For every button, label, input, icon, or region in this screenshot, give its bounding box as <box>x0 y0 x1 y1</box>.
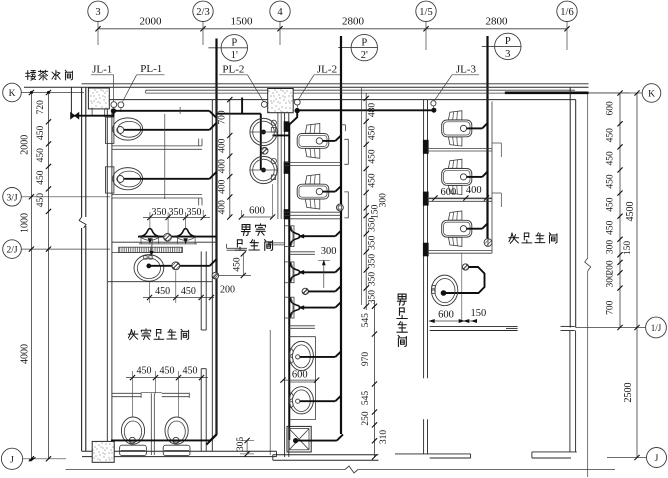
axis circle 3/J (left) <box>3 188 110 207</box>
dimension text 2800 (right) <box>486 15 509 27</box>
gate valve <box>71 113 79 119</box>
dimension text 545 (lower chain) <box>361 391 371 406</box>
washbasin 2 (men room) <box>289 387 313 414</box>
wall pilasters (men room west wall) <box>284 122 289 219</box>
section marker P/3 <box>482 33 521 60</box>
svg-text:450: 450 <box>155 286 170 297</box>
svg-text:2500: 2500 <box>623 383 634 403</box>
axis circle 2/J (left) <box>3 240 110 259</box>
room label men (vertical) <box>397 294 408 347</box>
svg-text:300: 300 <box>606 240 616 255</box>
toilet WC1 (women guest top) <box>106 117 143 143</box>
middle dimension chain lower <box>372 300 377 460</box>
urinal pair (women guest) <box>138 229 217 244</box>
wall urinal 1 (men room) <box>285 226 304 247</box>
chase wall (left room west) <box>107 109 112 451</box>
left room east wall <box>212 100 216 451</box>
svg-text:450: 450 <box>368 173 378 188</box>
dimension text 450 (bottom #2) <box>160 365 175 376</box>
dimension text 450 (bottom #1) <box>137 365 152 376</box>
svg-text:2/J: 2/J <box>6 246 17 256</box>
dimension text 300 (middle chain) <box>379 193 389 208</box>
urinal 3 pipe <box>301 302 342 308</box>
JL-1 riser circles <box>111 102 124 112</box>
dimension 600/400 (women room) <box>429 195 492 200</box>
floor drain (women guest urinals) <box>164 233 172 241</box>
room label women guest <box>128 329 188 340</box>
concrete column bottom left <box>92 441 114 462</box>
bottom wall left block <box>82 451 277 456</box>
dimension text 2000 (left) <box>20 135 31 155</box>
dimension 600/150 (women room bottom) <box>429 296 477 323</box>
svg-text:2000: 2000 <box>140 15 163 27</box>
squat pan 2 pipe (women room) <box>467 172 488 177</box>
dimension text 450 (bottom #3) <box>183 365 198 376</box>
round washbasin 1 (men guest) <box>250 118 277 145</box>
squat pan 1 (men room) <box>297 124 329 159</box>
svg-text:3/J: 3/J <box>6 193 17 203</box>
JL-2 riser circle <box>294 99 300 105</box>
section marker P/2' <box>338 34 377 61</box>
women room west wall (right block) <box>424 100 428 454</box>
north wall pipes <box>146 90 575 93</box>
svg-text:450: 450 <box>606 220 616 235</box>
svg-text:450: 450 <box>36 148 46 163</box>
dimension text 700 (right chain) <box>606 300 616 315</box>
room label men guest line1 <box>241 224 265 236</box>
north wall window bar <box>505 92 630 95</box>
toilet WC3 (bottom) <box>120 417 147 456</box>
svg-text:450: 450 <box>137 365 152 376</box>
svg-text:4: 4 <box>277 7 283 18</box>
axis circle 4 <box>270 1 290 45</box>
JL-1 riser box <box>88 88 109 109</box>
dimension text 600 (women room) <box>441 187 457 198</box>
label PL-1 <box>123 63 165 101</box>
dimension text 350 (middle chain) <box>368 272 378 287</box>
svg-text:1': 1' <box>231 50 238 61</box>
svg-text:305: 305 <box>236 437 246 452</box>
svg-text:PL-1: PL-1 <box>140 63 162 75</box>
svg-text:1000: 1000 <box>20 213 31 233</box>
svg-text:450: 450 <box>368 149 378 164</box>
svg-text:450: 450 <box>183 365 198 376</box>
valve on P3 line <box>484 239 492 247</box>
dimension text 4000 (left) <box>20 344 31 364</box>
drain (women room) <box>462 254 469 322</box>
dimension text 2800 (left) <box>342 15 365 27</box>
flush pipe toilet WC2 <box>124 172 217 179</box>
stall partition A (men room) <box>285 162 341 165</box>
dimension text 2500 <box>623 383 634 403</box>
svg-text:400: 400 <box>218 179 228 194</box>
svg-text:545: 545 <box>361 313 371 328</box>
urinal screen 2 <box>289 326 315 329</box>
top dimension line <box>95 26 569 31</box>
svg-text:P: P <box>231 38 237 49</box>
dimension text 1000 (left) <box>20 213 31 233</box>
dimension text 450 (right chain) <box>606 174 616 189</box>
dimension text 250 (lower chain) <box>361 411 371 426</box>
dimension text 450 (left #1) <box>36 125 46 140</box>
svg-text:350: 350 <box>169 207 184 218</box>
dimension text 200 (right chain) <box>606 260 616 275</box>
toilet WC4 (bottom) <box>163 417 190 456</box>
svg-text:600: 600 <box>441 187 457 198</box>
flush pipe toilet WC1 <box>124 123 217 130</box>
svg-text:400: 400 <box>466 185 482 196</box>
svg-text:1/J: 1/J <box>651 323 662 333</box>
room label men guest line2 <box>235 240 273 251</box>
svg-text:1/6: 1/6 <box>560 7 573 18</box>
text jie-cha-shui-jian <box>26 70 73 80</box>
svg-text:P: P <box>361 37 367 48</box>
squat pan 1 (women room) <box>442 111 472 146</box>
svg-text:J: J <box>655 454 659 464</box>
dimension text 310 (lower chain) <box>379 430 389 445</box>
K line junction dots <box>30 91 50 94</box>
svg-text:450: 450 <box>36 170 46 185</box>
dimension text 400 (men guest #1) <box>218 138 228 153</box>
dimension text 600 (women bottom) <box>438 309 454 320</box>
dimension row 450x2 (basin) <box>143 271 214 303</box>
washbasin 1 (men room) <box>289 341 313 370</box>
dimension text 350 (middle chain) <box>368 254 378 269</box>
squat pan 2 pipe <box>323 186 341 192</box>
left inner dimension line <box>46 90 51 462</box>
south wall on 1/J <box>430 326 575 330</box>
svg-text:450: 450 <box>606 128 616 143</box>
middle dimension chain upper <box>364 93 369 310</box>
svg-text:545: 545 <box>361 391 371 406</box>
women room east wall <box>570 87 576 327</box>
svg-text:300: 300 <box>321 246 337 257</box>
dimension chain 400/700 (men guest) <box>227 97 232 220</box>
svg-text:700: 700 <box>218 110 228 125</box>
dimension text 4500 <box>625 202 636 222</box>
dimension 600 (men room basins) <box>280 370 319 383</box>
dimension text 400 (men guest #4) <box>218 200 228 215</box>
wall urinal 2 (men room) <box>285 262 304 283</box>
svg-text:2800: 2800 <box>342 15 365 27</box>
wall line above washbasin <box>112 241 217 243</box>
axis circle 2/3 <box>193 1 213 45</box>
dimension 305 <box>236 437 254 457</box>
washbasin pipe (women guest) <box>151 259 217 266</box>
axis circle 1/6 <box>557 1 577 50</box>
urinal screen 1 <box>289 252 315 255</box>
dimension text 150 (women bottom) <box>471 308 487 319</box>
bottom stall partition <box>112 393 189 398</box>
svg-text:150: 150 <box>471 308 487 319</box>
svg-text:350: 350 <box>152 207 167 218</box>
bottom toilets pipe <box>111 434 217 440</box>
svg-text:4500: 4500 <box>625 202 636 222</box>
svg-text:350: 350 <box>187 207 202 218</box>
main pipe JL-1 to P-1 line <box>114 111 217 118</box>
drain (men room urinals) <box>302 288 308 294</box>
dimension text 400 (women room) <box>466 185 482 196</box>
mop sink <box>287 426 311 452</box>
washbasin (women room) <box>431 275 457 306</box>
dimension text 700 (men guest) <box>218 110 228 125</box>
axis circle K (right) <box>589 84 661 103</box>
pipe riser connection at JL-1 <box>113 111 115 117</box>
section line P-2' <box>340 36 342 434</box>
urinal trough lines <box>139 237 197 244</box>
label JL-2 <box>298 64 340 100</box>
partition stub (men guest lower) <box>227 244 247 250</box>
valve on east wall <box>212 272 219 279</box>
dimension text 400 (men guest #2) <box>218 159 228 174</box>
partition stub right of basin2 <box>268 243 285 245</box>
svg-text:300: 300 <box>606 273 616 288</box>
round washbasin 2 (men guest) <box>250 156 277 183</box>
svg-text:400: 400 <box>218 200 228 215</box>
main pipe JL-2 to JL-3 <box>298 109 434 111</box>
squat pan 3 (women room) <box>442 211 472 246</box>
axis circle K (left) <box>3 83 84 102</box>
svg-text:310: 310 <box>379 430 389 445</box>
dimension text 350 #2 <box>169 207 184 218</box>
bottom wall middle strip <box>273 455 379 460</box>
section line P-1' <box>215 39 217 435</box>
dimension text 450 (basin R) <box>181 286 196 297</box>
svg-text:200: 200 <box>220 284 235 295</box>
tea room pipe <box>71 87 113 116</box>
dimension text 150 (right chain) <box>623 241 633 256</box>
svg-text:600: 600 <box>249 206 265 217</box>
squat pan 2 (men room) <box>297 174 329 209</box>
PL-1 drop stub <box>241 98 243 114</box>
dimension text 350 #1 <box>152 207 167 218</box>
bottom boundary line with break <box>66 466 616 473</box>
dimension text 450 (left #3) <box>36 170 46 185</box>
svg-text:2000: 2000 <box>20 135 31 155</box>
axis circle 3 <box>88 1 108 45</box>
svg-text:480: 480 <box>368 103 378 118</box>
section line P-3 <box>486 36 488 246</box>
dimension text 450 (right chain) <box>606 151 616 166</box>
svg-text:350: 350 <box>368 235 378 250</box>
svg-text:600: 600 <box>606 101 616 116</box>
axis circle 1/J (right) <box>576 317 667 338</box>
stall partition 2 (women guest) <box>112 195 202 206</box>
dimension 600 (men guest) <box>239 184 275 220</box>
svg-text:PL-2: PL-2 <box>222 64 244 76</box>
axis circle J (left) <box>1 448 66 469</box>
JL-1 junction dot <box>111 109 116 114</box>
dimension text 450 (left #4) <box>36 193 46 208</box>
dimension text 1500 <box>231 15 254 27</box>
squat pan 2 (women room) <box>442 159 472 194</box>
svg-text:J: J <box>10 455 14 465</box>
JL-2 drop pipe to men room wall <box>289 111 297 440</box>
basin counter boxes (men room) <box>289 337 315 420</box>
svg-text:700: 700 <box>606 300 616 315</box>
PL-2 riser circle <box>261 102 267 108</box>
dimension text 600 (men guest) <box>249 206 265 217</box>
svg-text:3: 3 <box>95 7 100 18</box>
svg-text:JL-1: JL-1 <box>92 64 112 76</box>
center stall wall <box>151 393 154 455</box>
svg-text:150: 150 <box>371 204 381 219</box>
right inner dimension line <box>617 90 622 330</box>
svg-text:350: 350 <box>368 254 378 269</box>
partition wall between rooms (lower) <box>201 251 206 451</box>
svg-text:600: 600 <box>438 309 454 320</box>
svg-text:K: K <box>648 90 655 100</box>
pipe drop to corner <box>207 435 217 445</box>
dimension text 400 (men guest #3) <box>218 179 228 194</box>
svg-text:P: P <box>505 36 511 47</box>
svg-text:450: 450 <box>181 286 196 297</box>
label PL-2 <box>219 64 264 102</box>
counter band hatched <box>112 247 182 252</box>
middle extension line <box>361 87 363 305</box>
right extension line with break <box>585 93 591 477</box>
right outer dimension line <box>634 90 639 460</box>
dimension text 450 (middle chain) <box>368 126 378 141</box>
bottom wall segment (center right) <box>532 452 577 458</box>
svg-text:450: 450 <box>36 125 46 140</box>
svg-text:450: 450 <box>606 197 616 212</box>
wall pilasters (women room west wall) <box>423 140 428 256</box>
svg-text:450: 450 <box>606 151 616 166</box>
svg-text:250: 250 <box>361 411 371 426</box>
svg-text:400: 400 <box>218 138 228 153</box>
dimension text 150 (middle chain) <box>371 204 381 219</box>
svg-text:600: 600 <box>292 370 308 381</box>
svg-text:2800: 2800 <box>486 15 509 27</box>
wall urinal 3 (men room) <box>285 297 304 318</box>
dimension text 300 (right chain) <box>606 240 616 255</box>
svg-text:450: 450 <box>606 174 616 189</box>
north wall inner face <box>109 99 575 101</box>
dimension text 450 (left #2) <box>36 148 46 163</box>
dimension text 350 (middle chain) <box>368 235 378 250</box>
dimension text 720 <box>36 100 46 115</box>
svg-text:1/5: 1/5 <box>419 7 432 18</box>
cleanout on P2 line <box>337 204 344 211</box>
stall front line <box>165 107 180 199</box>
svg-text:JL-2: JL-2 <box>317 64 337 76</box>
dimension text 450 (right chain) <box>606 197 616 212</box>
svg-text:3: 3 <box>505 49 510 60</box>
dimension text 450 (middle chain) <box>368 173 378 188</box>
drain between round basins <box>261 147 268 154</box>
room divider below basin <box>108 281 212 283</box>
svg-text:150: 150 <box>623 241 633 256</box>
svg-text:K: K <box>9 89 16 99</box>
stall partition 1 (women guest) <box>112 139 202 150</box>
dimension text 200 <box>220 284 235 295</box>
north wall outer edge <box>24 84 589 87</box>
svg-text:350: 350 <box>368 290 378 305</box>
label JL-3 <box>434 64 479 101</box>
dimension text 480 (middle chain) <box>368 103 378 118</box>
drain on washbasin pipe <box>172 262 180 270</box>
west wall <box>79 87 86 451</box>
bottom wall stub (right of corridor) <box>395 454 471 458</box>
svg-text:720: 720 <box>36 100 46 115</box>
JL-3 riser circle <box>431 101 436 106</box>
dimension text 450 (basin L) <box>155 286 170 297</box>
mop sink pipe <box>296 434 343 440</box>
svg-text:450: 450 <box>36 193 46 208</box>
urinal 1 pipe <box>301 231 342 237</box>
JL-3 junction dot <box>432 106 436 112</box>
dimension text 450 (right chain) <box>606 128 616 143</box>
men guest chase wall pair <box>270 113 281 455</box>
label JL-1 <box>91 64 114 102</box>
JL-2 riser box <box>268 89 294 113</box>
bottom east wall corner <box>570 331 576 452</box>
svg-text:970: 970 <box>361 352 371 367</box>
washbasin 2 pipe (men room) <box>300 396 341 402</box>
dimension text 545 (lower chain) <box>361 313 371 328</box>
svg-text:4000: 4000 <box>20 344 31 364</box>
stall front line (women room) <box>492 102 501 254</box>
dimension text 350 (middle chain) <box>368 217 378 232</box>
screen brackets east of P2 <box>341 125 348 218</box>
dimension text 300 (right chain) <box>606 273 616 288</box>
axis circle 1/5 <box>416 1 436 50</box>
dimension 450 vertical (men guest) <box>219 251 251 278</box>
svg-text:JL-3: JL-3 <box>456 64 477 76</box>
dimension text 350 (middle chain) <box>368 290 378 305</box>
room label women (right) <box>509 233 557 244</box>
dimension text 350 #3 <box>187 207 202 218</box>
toilet WC2 (women guest top) <box>106 167 143 193</box>
left outer dimension line <box>29 90 34 462</box>
svg-text:350: 350 <box>368 217 378 232</box>
basin1 tap link pipe <box>273 134 290 136</box>
svg-text:450: 450 <box>160 365 175 376</box>
squat pan 1 pipe (women room) <box>467 123 488 128</box>
dimension row 450x3 (bottom toilets) <box>126 371 208 417</box>
squat pan 3 pipe (women room) <box>467 223 488 228</box>
pipe drain to basin (women room) <box>446 267 485 293</box>
stall partitions (women room) <box>428 149 493 254</box>
drain pipe to main <box>308 286 341 292</box>
urinal 2 pipe <box>301 267 342 273</box>
svg-text:450: 450 <box>232 257 242 272</box>
axis circle J (right) <box>607 448 667 468</box>
washbasin 1 pipe (men room) <box>300 351 341 357</box>
dimension 300 (men room) <box>318 246 336 288</box>
dimension text 600 (right chain) <box>606 101 616 116</box>
main pipe across to PL-2 drop <box>217 114 261 170</box>
men guest east wall <box>285 100 289 457</box>
svg-text:2': 2' <box>361 50 368 61</box>
dimension text 450 (middle chain) <box>368 149 378 164</box>
stall partition B (men room) <box>285 212 341 219</box>
svg-text:400: 400 <box>218 159 228 174</box>
dimension text 2000 <box>140 15 163 27</box>
JL-2 junction dot <box>295 105 300 113</box>
svg-text:1500: 1500 <box>231 15 254 27</box>
svg-text:200: 200 <box>606 260 616 275</box>
section marker P/1' <box>208 35 247 62</box>
washbasin (women guest) <box>134 255 164 282</box>
dimension text 970 (lower chain) <box>361 352 371 367</box>
squat pan 1 pipe <box>323 135 341 141</box>
flow arrow urinal to basin <box>150 239 154 256</box>
dimension text 450 (right chain) <box>606 220 616 235</box>
svg-text:2/3: 2/3 <box>196 7 209 18</box>
svg-text:350: 350 <box>368 272 378 287</box>
